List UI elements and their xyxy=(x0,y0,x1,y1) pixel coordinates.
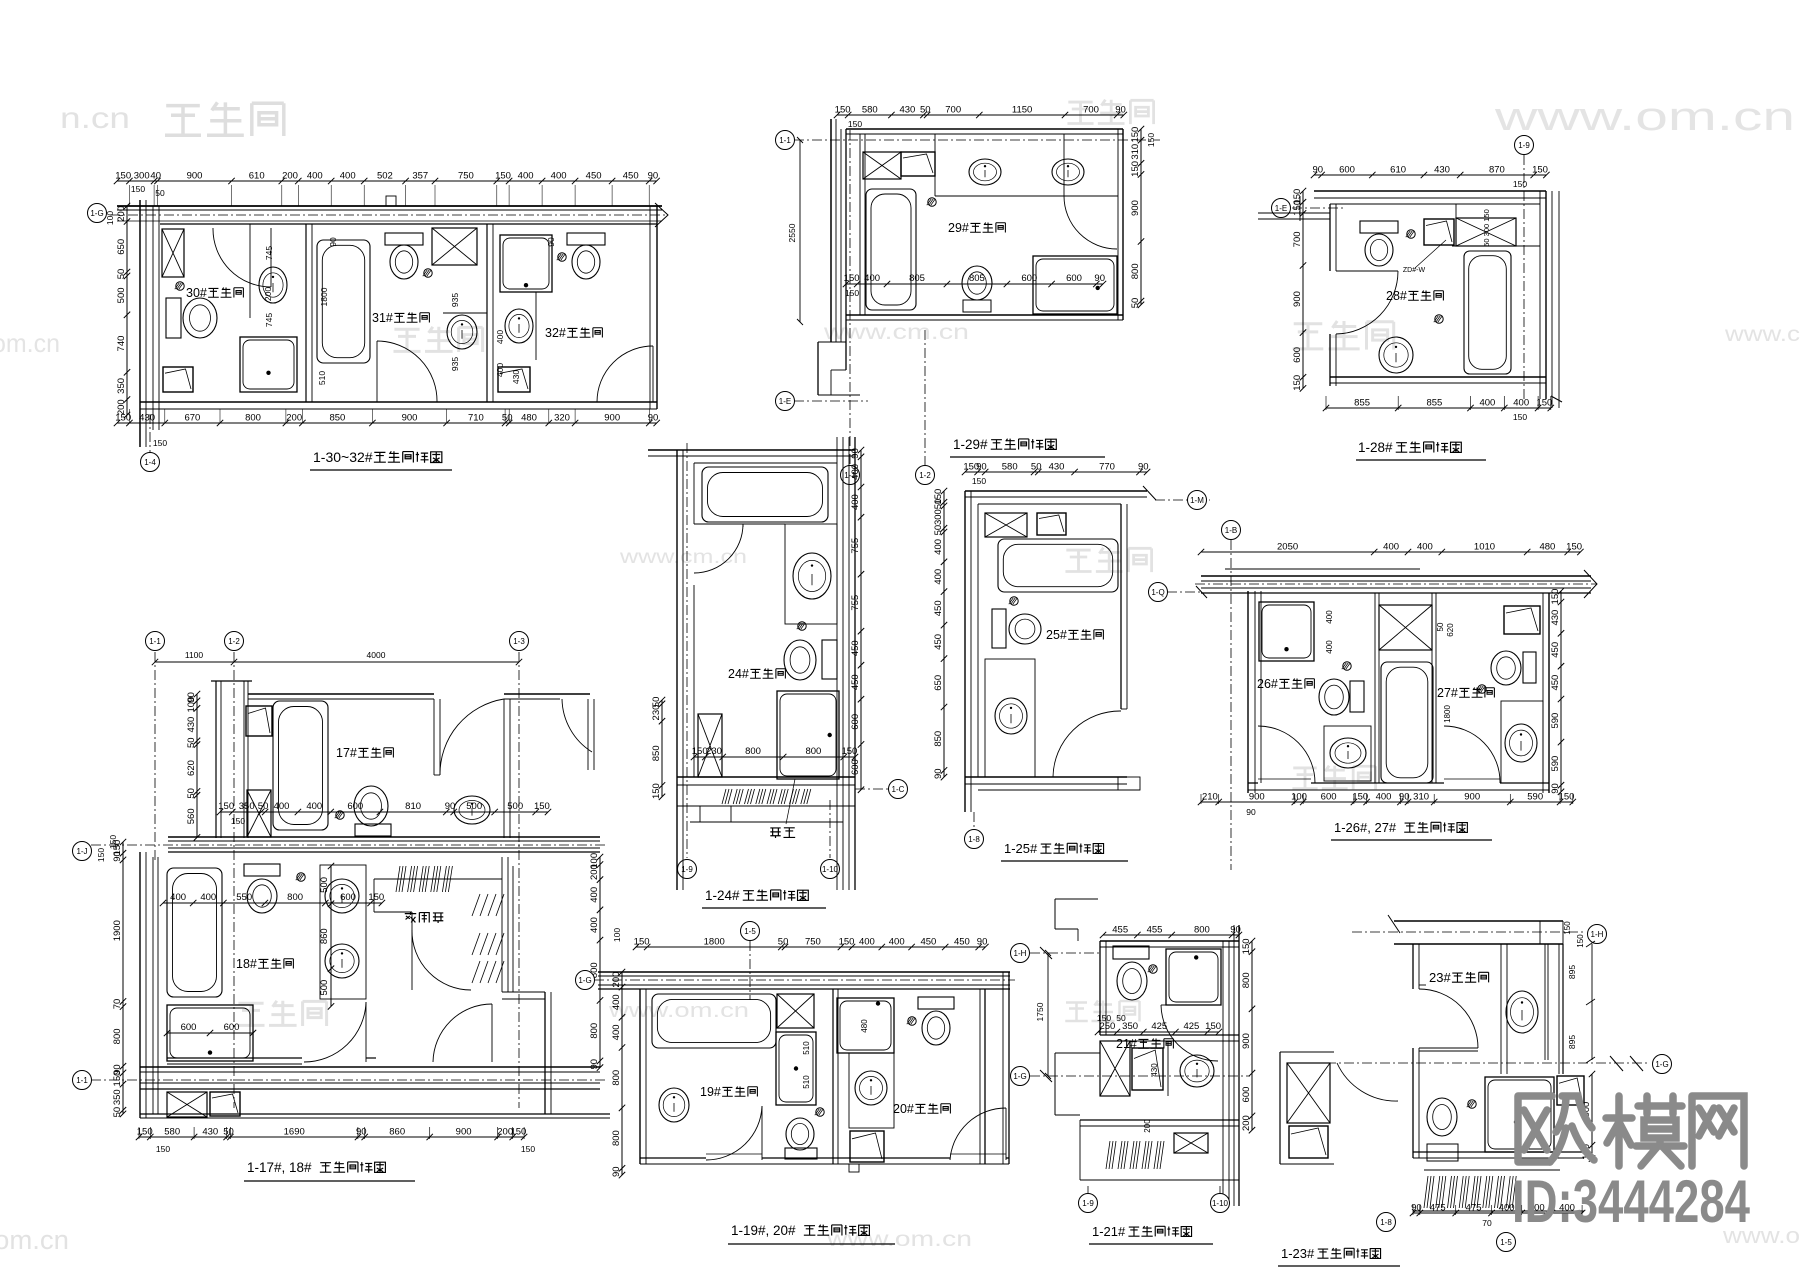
plan I grid 1-H xyxy=(1030,952,1100,954)
svg-text:www.om.cn: www.om.cn xyxy=(826,1228,972,1251)
svg-text:430: 430 xyxy=(1550,610,1561,626)
svg-text:430: 430 xyxy=(186,717,197,733)
plan D shaft xyxy=(698,714,722,777)
plan B drain xyxy=(928,198,936,206)
svg-text:1-2: 1-2 xyxy=(919,471,931,480)
svg-text:480: 480 xyxy=(860,1019,869,1033)
svg-text:150: 150 xyxy=(1563,921,1572,935)
svg-text:590: 590 xyxy=(1527,792,1543,803)
plan G left dims xyxy=(122,842,124,1114)
svg-text:150: 150 xyxy=(1559,792,1575,803)
svg-text:1-1: 1-1 xyxy=(76,1076,88,1085)
plan D zhipai label xyxy=(770,828,780,838)
plan G 17 right partition xyxy=(433,699,435,775)
svg-text:450: 450 xyxy=(1550,642,1561,658)
svg-text:400: 400 xyxy=(589,887,600,903)
plan D partition below tub xyxy=(694,523,785,525)
svg-text:70: 70 xyxy=(1482,1218,1492,1228)
svg-text:90: 90 xyxy=(112,851,123,862)
svg-text:www.cm.cn: www.cm.cn xyxy=(823,321,969,344)
svg-text:1-24#: 1-24# xyxy=(705,888,740,903)
svg-text:90: 90 xyxy=(1246,807,1256,817)
plan A grid bubble 1-4 xyxy=(149,414,151,452)
svg-text:1-30~32#: 1-30~32# xyxy=(313,449,373,465)
svg-text:500: 500 xyxy=(319,980,330,996)
svg-text:502: 502 xyxy=(377,171,393,182)
plan D right dims xyxy=(860,450,862,790)
svg-text:600: 600 xyxy=(850,714,861,730)
plan J right dim 895s xyxy=(1591,944,1593,1060)
plan I lower sink xyxy=(1167,1041,1169,1096)
plan G closet xyxy=(374,878,502,880)
plan D right corridor band xyxy=(836,437,838,890)
plan E grid 1-Q bubble xyxy=(1167,591,1201,593)
plan D balcony xyxy=(677,805,855,807)
svg-text:800: 800 xyxy=(1130,263,1141,279)
plan A sink 32 xyxy=(535,292,537,360)
svg-text:30#: 30# xyxy=(186,286,207,300)
svg-text:50: 50 xyxy=(155,188,165,198)
plan F vanity 26 xyxy=(1324,726,1371,781)
plan A drain 32 xyxy=(558,253,566,261)
plan D grid 1-9 left xyxy=(686,443,688,858)
svg-text:150: 150 xyxy=(153,438,167,448)
svg-text:400: 400 xyxy=(307,171,323,182)
svg-text:800: 800 xyxy=(1194,925,1210,936)
svg-text:150: 150 xyxy=(510,1127,526,1138)
svg-text:600: 600 xyxy=(850,759,861,775)
svg-text:770: 770 xyxy=(1099,462,1115,473)
plan G 17 toilet xyxy=(355,824,391,836)
plan H left dims xyxy=(621,972,623,1175)
plan C top dims xyxy=(1314,174,1546,176)
plan I shower xyxy=(1166,949,1221,1005)
plan B door xyxy=(1064,196,1117,249)
plan E door xyxy=(1053,711,1121,777)
plan H 19 door xyxy=(706,1106,762,1160)
svg-text:1-17#, 18#: 1-17#, 18# xyxy=(247,1160,312,1175)
plan F grid 1-B xyxy=(1230,540,1232,870)
svg-text:50: 50 xyxy=(933,499,944,510)
plan F top dims xyxy=(1201,551,1580,553)
plan G grid bubbles top xyxy=(146,632,165,651)
svg-text:50: 50 xyxy=(186,788,197,799)
svg-text:870: 870 xyxy=(1489,165,1505,176)
svg-text:600: 600 xyxy=(1339,165,1355,176)
svg-text:1800: 1800 xyxy=(704,937,725,948)
svg-text:1-29#: 1-29# xyxy=(953,437,988,452)
svg-text:1-E: 1-E xyxy=(779,397,791,406)
plan G 18 drain xyxy=(297,873,305,881)
svg-text:50: 50 xyxy=(1130,298,1141,309)
svg-text:400: 400 xyxy=(170,892,186,903)
svg-text:1150: 1150 xyxy=(1012,105,1032,116)
svg-text:900: 900 xyxy=(187,171,203,182)
plan A shaft xyxy=(162,229,184,277)
plan I top dims xyxy=(1103,934,1239,936)
svg-text:28#: 28# xyxy=(1386,289,1407,303)
svg-text:1-5: 1-5 xyxy=(1500,1238,1512,1247)
svg-text:200: 200 xyxy=(116,399,127,415)
svg-text:580: 580 xyxy=(862,105,878,116)
svg-text:150: 150 xyxy=(848,119,862,129)
svg-text:800: 800 xyxy=(805,746,821,757)
svg-text:560: 560 xyxy=(186,808,197,824)
plan D vanity xyxy=(785,524,837,624)
svg-text:70: 70 xyxy=(112,999,123,1010)
plan B right wall xyxy=(1117,129,1119,320)
svg-text:150: 150 xyxy=(115,171,131,182)
svg-text:200: 200 xyxy=(611,972,622,988)
svg-text:400: 400 xyxy=(933,539,944,555)
svg-text:230: 230 xyxy=(651,705,662,721)
plan G 17 sink xyxy=(454,796,490,824)
plan G 17 washer xyxy=(246,706,272,736)
svg-text:600: 600 xyxy=(1241,1087,1252,1103)
svg-text:150: 150 xyxy=(651,783,662,799)
svg-text:590: 590 xyxy=(1550,756,1561,772)
svg-text:400: 400 xyxy=(889,937,905,948)
svg-text:900: 900 xyxy=(456,1127,472,1138)
plan E top dims xyxy=(965,471,1147,473)
svg-text:510: 510 xyxy=(802,1041,811,1055)
plan A grid bubble left xyxy=(88,204,107,223)
svg-text:855: 855 xyxy=(1354,398,1370,409)
plan G 17 block walls xyxy=(211,680,252,682)
svg-text:800: 800 xyxy=(611,1130,622,1146)
svg-text:740: 740 xyxy=(116,336,127,352)
svg-text:860: 860 xyxy=(319,928,330,944)
svg-text:150: 150 xyxy=(368,892,384,903)
svg-text:860: 860 xyxy=(389,1127,405,1138)
svg-text:750: 750 xyxy=(458,171,474,182)
svg-text:50: 50 xyxy=(502,413,513,424)
svg-text:150: 150 xyxy=(112,1071,123,1087)
svg-text:935: 935 xyxy=(450,293,460,307)
svg-text:400: 400 xyxy=(611,994,622,1010)
plan I lower shaft xyxy=(1100,1041,1130,1096)
svg-text:150: 150 xyxy=(218,801,234,812)
plan H 19 drain xyxy=(816,1108,824,1116)
svg-text:500: 500 xyxy=(116,287,127,303)
svg-text:150: 150 xyxy=(137,1127,153,1138)
plan A floor drain 30 xyxy=(176,282,184,290)
plan H 19 shower xyxy=(776,1032,816,1105)
svg-text:200: 200 xyxy=(589,864,600,880)
svg-text:90: 90 xyxy=(1115,105,1126,116)
svg-text:350: 350 xyxy=(116,378,127,394)
svg-text:26#: 26# xyxy=(1257,677,1278,691)
svg-text:150: 150 xyxy=(845,288,859,298)
svg-text:19#: 19# xyxy=(700,1085,721,1099)
svg-text:455: 455 xyxy=(1112,925,1128,936)
svg-text:150: 150 xyxy=(1097,1013,1111,1023)
svg-text:150: 150 xyxy=(1130,161,1141,177)
plan G top dims xyxy=(155,661,519,663)
svg-text:1-M: 1-M xyxy=(1190,496,1204,505)
plan A extension lines top xyxy=(128,185,130,206)
plan B right dims xyxy=(1140,129,1142,305)
plan H left wall xyxy=(639,989,641,1164)
plan G closet label xyxy=(405,912,416,923)
plan B shaft xyxy=(863,152,901,179)
plan A shaft 31 xyxy=(432,228,477,265)
svg-text:430: 430 xyxy=(899,105,915,116)
svg-text:230: 230 xyxy=(706,746,722,757)
svg-text:400: 400 xyxy=(340,171,356,182)
svg-text:620: 620 xyxy=(1446,623,1455,637)
plan C shaft xyxy=(1456,218,1516,246)
plan A cistern nub 31 xyxy=(386,196,396,206)
svg-text:150: 150 xyxy=(1576,934,1585,948)
svg-text:90: 90 xyxy=(1094,273,1105,284)
svg-text:150: 150 xyxy=(839,937,855,948)
svg-text:50: 50 xyxy=(1116,1013,1126,1023)
plan J drain xyxy=(1468,1100,1476,1108)
svg-text:620: 620 xyxy=(186,760,197,776)
plan D door xyxy=(694,524,743,573)
svg-text:50: 50 xyxy=(920,105,931,116)
svg-text:750: 750 xyxy=(805,937,821,948)
svg-text:90: 90 xyxy=(976,462,987,473)
svg-text:150: 150 xyxy=(1292,375,1303,391)
svg-text:400: 400 xyxy=(274,801,290,812)
svg-text:500: 500 xyxy=(319,877,330,893)
plan I lower basin xyxy=(1132,1048,1163,1090)
plan G 17 door1 xyxy=(440,699,504,775)
svg-text:1-B: 1-B xyxy=(1225,526,1237,535)
svg-text:480: 480 xyxy=(1539,542,1555,553)
svg-text:450: 450 xyxy=(1550,675,1561,691)
svg-text:450: 450 xyxy=(850,674,861,690)
big watermark om logo xyxy=(1518,1096,1744,1166)
svg-text:400: 400 xyxy=(1376,792,1392,803)
svg-text:350: 350 xyxy=(239,801,255,812)
svg-text:40: 40 xyxy=(150,171,161,182)
svg-text:895: 895 xyxy=(1567,1035,1577,1049)
svg-text:350: 350 xyxy=(112,1089,123,1105)
plan B corner basin xyxy=(901,152,935,176)
svg-text:90: 90 xyxy=(1399,792,1410,803)
svg-text:1100: 1100 xyxy=(185,650,204,660)
plan I door xyxy=(1161,1005,1218,1061)
svg-text:500: 500 xyxy=(466,801,482,812)
svg-text:400: 400 xyxy=(850,494,861,510)
svg-text:425: 425 xyxy=(1151,1021,1167,1032)
plan I mid dims xyxy=(1098,1031,1219,1033)
svg-text:600: 600 xyxy=(1321,792,1337,803)
plan G mid corridor xyxy=(168,836,600,838)
plan C grid 1-9 xyxy=(1523,155,1525,400)
plan F door 27 xyxy=(1444,726,1500,783)
svg-text:450: 450 xyxy=(586,171,602,182)
svg-text:1-9: 1-9 xyxy=(1082,1199,1094,1208)
plan C bottom dims xyxy=(1326,407,1551,409)
svg-text:805: 805 xyxy=(969,273,985,284)
svg-text:700: 700 xyxy=(1292,231,1303,247)
svg-text:1-25#: 1-25# xyxy=(1004,841,1038,856)
watermark om logo top-left xyxy=(165,106,201,136)
svg-text:90: 90 xyxy=(1313,165,1324,176)
svg-text:310: 310 xyxy=(1413,792,1429,803)
svg-text:710: 710 xyxy=(468,413,484,424)
svg-text:935: 935 xyxy=(450,357,460,371)
plan D top wall xyxy=(648,449,855,451)
plan D bottom wall xyxy=(677,776,855,778)
plan J left bubble xyxy=(1377,1213,1396,1232)
plan F vanity 27 xyxy=(1501,701,1543,783)
svg-text:745: 745 xyxy=(264,246,274,260)
plan I left dim 1750 xyxy=(1047,953,1049,1076)
svg-text:425: 425 xyxy=(1183,1021,1199,1032)
plan J door xyxy=(1419,989,1478,1048)
svg-text:600: 600 xyxy=(1292,347,1303,363)
svg-text:745: 745 xyxy=(264,313,274,327)
plan C drains xyxy=(1407,230,1415,238)
plan G bottom corridor xyxy=(140,1066,600,1068)
svg-text:900: 900 xyxy=(1292,291,1303,307)
svg-text:400: 400 xyxy=(200,892,216,903)
svg-text:27#: 27# xyxy=(1437,686,1458,700)
plan E drain xyxy=(1010,597,1018,605)
plan I top wall xyxy=(1100,940,1239,942)
svg-text:400: 400 xyxy=(495,363,505,377)
svg-text:150: 150 xyxy=(1532,165,1548,176)
svg-text:1-21#: 1-21# xyxy=(1092,1224,1126,1239)
svg-text:900: 900 xyxy=(604,413,620,424)
plan G right dims xyxy=(599,857,601,1068)
svg-text:90: 90 xyxy=(445,801,456,812)
plan F door 26 xyxy=(1258,726,1315,783)
plan H 20 drain xyxy=(908,1017,916,1025)
svg-text:1-8: 1-8 xyxy=(1380,1218,1392,1227)
svg-text:2050: 2050 xyxy=(1277,542,1298,553)
svg-text:805: 805 xyxy=(909,273,925,284)
plan E bottom wall xyxy=(965,776,1127,778)
plan C left wall xyxy=(1329,204,1331,271)
plan E grid 1-M xyxy=(1155,499,1210,501)
plan D shower xyxy=(777,691,839,779)
plan J left block xyxy=(1279,1052,1281,1164)
svg-text:4000: 4000 xyxy=(367,650,386,660)
svg-text:900: 900 xyxy=(1241,1033,1252,1049)
plan B top wall xyxy=(846,128,1123,130)
svg-text:430: 430 xyxy=(1150,1063,1159,1077)
svg-text:455: 455 xyxy=(1147,925,1163,936)
svg-text:400: 400 xyxy=(611,1024,622,1040)
svg-text:610: 610 xyxy=(1390,165,1406,176)
plan I top-left steps xyxy=(1055,898,1098,900)
plan D interior dim row xyxy=(694,756,855,758)
plan J sink xyxy=(1506,991,1538,1033)
svg-text:430: 430 xyxy=(202,1127,218,1138)
svg-text:150: 150 xyxy=(131,184,145,194)
svg-text:755: 755 xyxy=(850,538,861,554)
svg-text:600: 600 xyxy=(347,801,363,812)
svg-text:430: 430 xyxy=(139,413,155,424)
plan C corner basin xyxy=(1424,219,1454,245)
plan H 20 door xyxy=(950,1108,1006,1160)
svg-text:90: 90 xyxy=(850,448,861,459)
plan B sink left xyxy=(969,159,1001,185)
svg-text:650: 650 xyxy=(116,239,127,255)
svg-text:400: 400 xyxy=(859,937,875,948)
plan A right wall xyxy=(649,206,651,409)
plan B interior left wall xyxy=(859,134,861,315)
svg-text:1-G: 1-G xyxy=(1013,1072,1026,1081)
plan I mid wall xyxy=(1100,1034,1239,1036)
svg-text:900: 900 xyxy=(1249,792,1265,803)
plan F toilet 26 xyxy=(1350,681,1364,712)
svg-text:850: 850 xyxy=(933,731,944,747)
svg-text:50: 50 xyxy=(223,1127,234,1138)
svg-text:1-26#, 27#: 1-26#, 27# xyxy=(1334,820,1397,835)
svg-text:150: 150 xyxy=(96,848,106,862)
svg-text:855: 855 xyxy=(1426,398,1442,409)
svg-text:om.cn: om.cn xyxy=(0,328,60,358)
plan C leader text xyxy=(1415,240,1446,268)
svg-text:450: 450 xyxy=(920,937,936,948)
plan A corridor wall top xyxy=(117,205,662,207)
plan A shower 30 xyxy=(240,337,297,392)
plan A door 31 xyxy=(377,341,437,402)
svg-text:50: 50 xyxy=(933,525,944,536)
svg-text:600: 600 xyxy=(1021,273,1037,284)
svg-text:755: 755 xyxy=(850,595,861,611)
plan F mid partitions xyxy=(1374,593,1376,783)
svg-text:150: 150 xyxy=(835,105,851,116)
plan C bottom wall xyxy=(1330,376,1546,378)
svg-text:150: 150 xyxy=(841,746,857,757)
plan G 18 vertical dims xyxy=(330,866,332,1006)
plan C bathtub xyxy=(1464,251,1511,374)
svg-text:450: 450 xyxy=(933,600,944,616)
plan B left dim 2550 xyxy=(799,140,801,322)
plan I right band xyxy=(1222,941,1224,1206)
svg-text:24#: 24# xyxy=(728,667,749,681)
plan D left dims xyxy=(661,700,663,797)
plan C left dims xyxy=(1302,191,1304,388)
svg-text:1690: 1690 xyxy=(284,1127,305,1138)
plan H corridor xyxy=(598,971,1010,973)
plan A extension lines bottom xyxy=(128,409,130,423)
svg-text:800: 800 xyxy=(112,1028,123,1044)
plan J top corridor xyxy=(1394,920,1563,922)
plan J right dims lower xyxy=(1591,1074,1593,1159)
plan G 17 drain xyxy=(336,811,344,819)
svg-text:90: 90 xyxy=(1138,462,1149,473)
plan A toilet 32 xyxy=(567,233,605,245)
svg-text:800: 800 xyxy=(1241,972,1252,988)
svg-text:580: 580 xyxy=(1002,462,1018,473)
plan F bottom dims xyxy=(1201,801,1573,803)
svg-text:29#: 29# xyxy=(948,221,969,235)
plan A top dimension chain xyxy=(117,180,657,182)
svg-text:650: 650 xyxy=(933,675,944,691)
plan A shower 32 xyxy=(500,235,552,292)
plan I grid 1-G xyxy=(1030,1075,1250,1077)
plan B vanity counter xyxy=(934,134,936,196)
svg-text:150: 150 xyxy=(972,476,986,486)
svg-text:150: 150 xyxy=(1352,792,1368,803)
plan E bathtub xyxy=(998,539,1118,592)
plan D bathtub xyxy=(702,467,828,522)
svg-text:1-5: 1-5 xyxy=(744,927,756,936)
plan G 18 bathtub xyxy=(167,868,222,997)
plan H 20 toilet xyxy=(918,997,954,1009)
svg-text:90: 90 xyxy=(546,237,556,247)
svg-text:www.c: www.c xyxy=(1724,323,1800,346)
